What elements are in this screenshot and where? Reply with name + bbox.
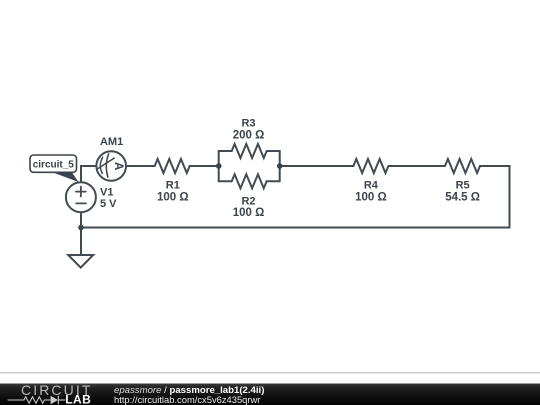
svg-text:200 Ω: 200 Ω [233, 130, 265, 142]
svg-text:AM1: AM1 [100, 136, 123, 148]
node B junction dot [277, 163, 283, 169]
svg-text:R1: R1 [166, 180, 180, 192]
wire R1 to node A [190, 165, 219, 167]
svg-text:LAB: LAB [65, 393, 91, 405]
svg-text:R2: R2 [241, 196, 255, 208]
footer separator line [0, 372, 540, 373]
footer bar [0, 382, 540, 405]
node flag circuit_5 [30, 155, 79, 182]
svg-text:R3: R3 [241, 118, 255, 130]
wire bottom return [81, 227, 510, 229]
svg-text:54.5 Ω: 54.5 Ω [445, 192, 480, 204]
wire right bracket of parallel block [279, 151, 281, 181]
svg-text:A: A [112, 162, 124, 170]
svg-text:R4: R4 [364, 180, 379, 192]
wire top-left corner to ammeter [81, 166, 96, 182]
wire V1 bottom to ground [80, 212, 82, 255]
wire bottom branch left [219, 180, 232, 182]
wire R5 to right edge and down [480, 166, 510, 228]
svg-text:circuit_5: circuit_5 [33, 160, 75, 171]
ammeter AM1 [96, 151, 126, 181]
bottom junction dot [78, 225, 84, 231]
logo schematic line with resistor and diode [8, 396, 66, 405]
svg-text:5 V: 5 V [100, 198, 117, 210]
resistor R2 [232, 174, 267, 188]
resistor R4 [353, 159, 388, 173]
wire ammeter to R1 [126, 165, 155, 167]
resistor R3 [232, 144, 267, 158]
svg-text:V1: V1 [100, 186, 113, 198]
ground [68, 255, 93, 268]
logo diode triangle [51, 396, 58, 405]
svg-text:100 Ω: 100 Ω [157, 192, 189, 204]
resistor R5 [445, 159, 480, 173]
wire node B to R4 [280, 165, 354, 167]
svg-text:http://circuitlab.com/cx5v6z43: http://circuitlab.com/cx5v6z435qrwr [114, 394, 260, 405]
wire R4 to R5 [388, 165, 445, 167]
wire left bracket of parallel block [218, 151, 220, 181]
wire top branch right [267, 150, 280, 152]
node A junction dot [216, 163, 222, 169]
svg-text:R5: R5 [456, 180, 470, 192]
resistor R1 [155, 159, 190, 173]
svg-text:100 Ω: 100 Ω [355, 192, 387, 204]
wire top branch left [219, 150, 232, 152]
wire bottom branch right [267, 180, 280, 182]
svg-text:100 Ω: 100 Ω [233, 207, 265, 219]
voltage source V1 [66, 182, 96, 212]
